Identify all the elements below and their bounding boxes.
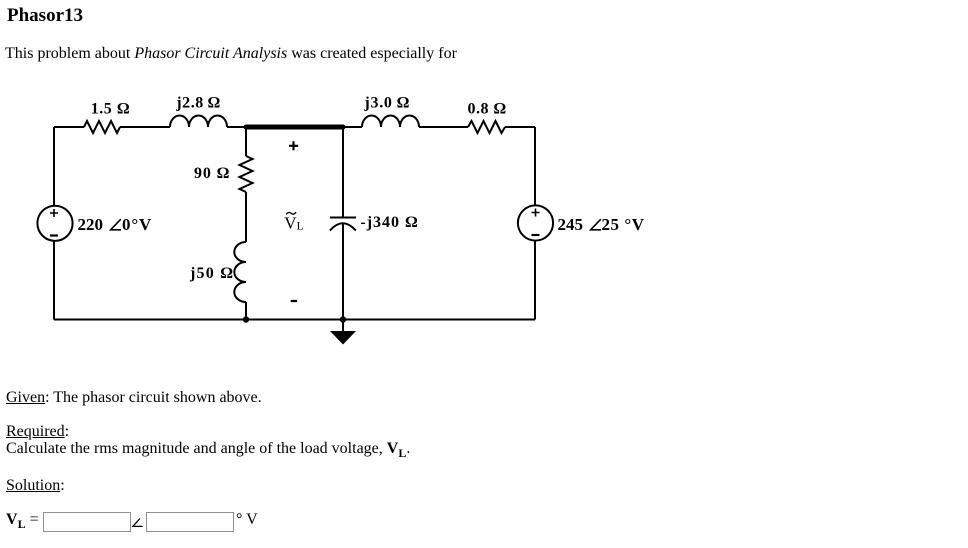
- svg-text:j2.8 Ω: j2.8 Ω: [175, 95, 220, 112]
- svg-text:-j340 Ω: -j340 Ω: [360, 214, 418, 231]
- svg-text:j3.0 Ω: j3.0 Ω: [363, 95, 409, 112]
- svg-text:245: 245: [558, 215, 584, 234]
- svg-text:0.8 Ω: 0.8 Ω: [468, 101, 507, 118]
- svg-text:25 °V: 25 °V: [602, 215, 645, 234]
- svg-text:90 Ω: 90 Ω: [194, 165, 230, 182]
- svg-text:0°V: 0°V: [122, 215, 152, 234]
- svg-text:VL: VL: [284, 213, 303, 232]
- svg-text:1.5 Ω: 1.5 Ω: [91, 101, 130, 118]
- svg-text:j50 Ω: j50 Ω: [189, 265, 233, 282]
- svg-text:220: 220: [78, 215, 104, 234]
